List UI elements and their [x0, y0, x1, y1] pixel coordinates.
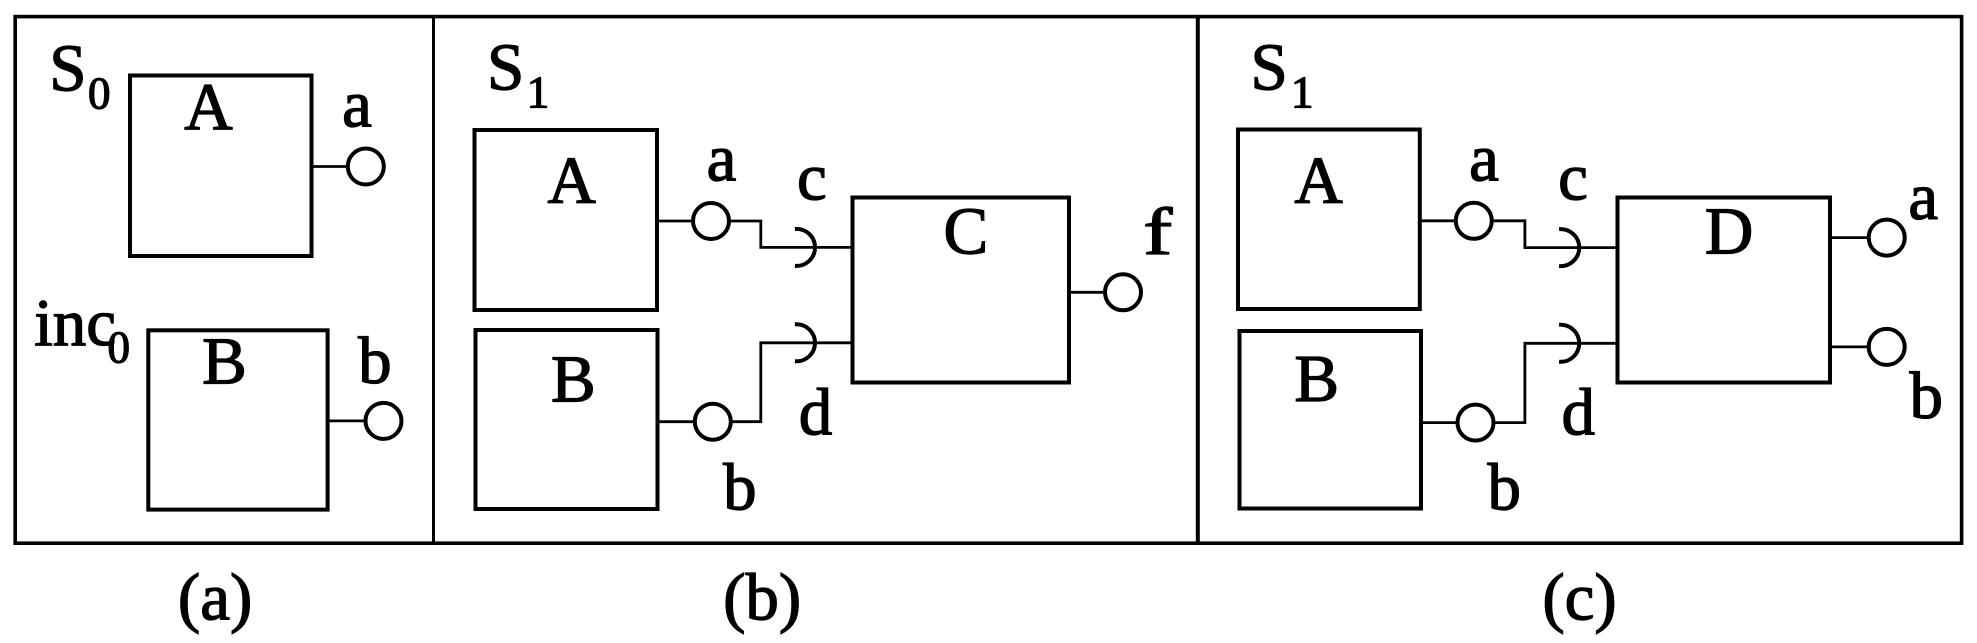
- component B (panel c): [1240, 331, 1422, 509]
- svg-text:0: 0: [88, 69, 111, 119]
- svg-text:a: a: [707, 122, 737, 196]
- svg-text:(c): (c): [1542, 561, 1616, 635]
- svg-text:1: 1: [1291, 68, 1314, 118]
- svg-text:b: b: [1909, 359, 1943, 433]
- svg-text:A: A: [1294, 143, 1342, 217]
- socket c (panel c): [1559, 229, 1579, 266]
- svg-text:B: B: [551, 343, 596, 417]
- svg-text:S: S: [487, 31, 524, 105]
- component A (panel c): [1238, 130, 1420, 310]
- svg-text:a: a: [1469, 122, 1499, 196]
- port a ball (panel a): [348, 149, 384, 185]
- wire B to port b (panel a): [328, 419, 366, 422]
- svg-text:b: b: [1488, 451, 1522, 525]
- panel divider b/c: [1196, 17, 1200, 544]
- svg-text:(b): (b): [723, 561, 801, 635]
- port a ball (panel c): [1456, 203, 1492, 239]
- port a ball (panel b): [693, 203, 729, 239]
- svg-text:a: a: [1908, 160, 1938, 234]
- wire B to port b (panel b): [658, 420, 696, 423]
- component A (panel b): [475, 130, 658, 310]
- component B (panel b): [476, 330, 658, 509]
- wire D to port b (panel c): [1830, 345, 1870, 348]
- svg-text:B: B: [202, 324, 247, 398]
- port f ball (panel b): [1105, 274, 1141, 310]
- wire C to port f (panel b): [1069, 291, 1106, 294]
- svg-text:a: a: [342, 68, 372, 142]
- component C (panel b): [853, 198, 1070, 383]
- svg-text:f: f: [1143, 195, 1172, 269]
- svg-text:A: A: [548, 143, 596, 217]
- wire A to port a (panel b): [657, 220, 694, 223]
- panel divider a/b: [432, 17, 435, 544]
- svg-text:d: d: [799, 376, 833, 450]
- wire B to port b (panel c): [1421, 421, 1458, 424]
- port b ball (panel c): [1458, 405, 1494, 441]
- component B (panel a): [148, 330, 327, 509]
- port b ball (panel b): [695, 404, 731, 440]
- svg-text:c: c: [1558, 141, 1588, 215]
- svg-text:A: A: [184, 70, 232, 144]
- svg-text:d: d: [1561, 376, 1595, 450]
- svg-text:S: S: [1251, 31, 1288, 105]
- svg-text:c: c: [797, 141, 827, 215]
- wire D to port a (panel c): [1830, 236, 1870, 239]
- component A (panel a): [130, 76, 312, 257]
- svg-text:B: B: [1294, 342, 1339, 416]
- wire a to socket c (panel b): [730, 221, 851, 247]
- wire A to port a (panel a): [312, 165, 349, 168]
- socket d (panel c): [1559, 325, 1579, 362]
- svg-text:C: C: [943, 195, 988, 269]
- svg-text:0: 0: [108, 322, 131, 372]
- svg-text:1: 1: [527, 68, 550, 118]
- wire A to port a (panel c): [1420, 219, 1457, 222]
- svg-text:S: S: [49, 32, 86, 106]
- svg-text:D: D: [1705, 195, 1753, 269]
- svg-text:(a): (a): [178, 561, 252, 635]
- wire b to socket d (panel b): [731, 343, 851, 422]
- wire b to socket d (panel c): [1494, 343, 1616, 422]
- port a ball out (panel c): [1869, 220, 1905, 256]
- socket d (panel b): [795, 324, 815, 361]
- wire a to socket c (panel c): [1492, 221, 1615, 248]
- component D (panel c): [1618, 198, 1831, 383]
- svg-text:b: b: [723, 451, 757, 525]
- port b ball (panel a): [366, 403, 402, 439]
- svg-text:b: b: [358, 324, 392, 398]
- svg-text:inc: inc: [34, 286, 116, 360]
- port b ball out (panel c): [1869, 329, 1905, 365]
- socket c (panel b): [795, 229, 815, 266]
